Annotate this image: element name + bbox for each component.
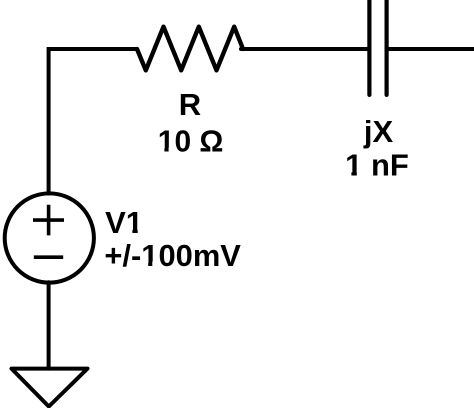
svg-text:jX: jX (363, 114, 394, 149)
capacitor jX right plate (385, 0, 389, 95)
serif mask for "1" of +/-100mV (142, 261, 148, 267)
wire source to ground (47, 282, 51, 368)
svg-text:R: R (179, 87, 201, 122)
minus sign inside V1 (34, 255, 63, 259)
wire capacitor to right edge (387, 47, 474, 51)
serif mask for "1" of 1 nF (345, 171, 351, 177)
wire left vertical + top horizontal (corner) (49, 49, 137, 194)
svg-text:10 Ω: 10 Ω (158, 124, 224, 159)
resistor R zigzag (137, 27, 243, 71)
svg-text:V1: V1 (105, 205, 143, 240)
wire resistor to capacitor (241, 47, 368, 51)
serif mask for "1" of V1 (126, 229, 132, 235)
capacitor jX left plate (367, 0, 371, 95)
voltage source V1 circle (5, 193, 94, 282)
plus sign inside V1 (33, 205, 64, 236)
svg-text:1 nF: 1 nF (345, 148, 409, 183)
ground symbol (12, 369, 88, 407)
svg-text:+/-100mV: +/-100mV (104, 238, 241, 273)
serif mask for "1" of 10 ohm (159, 148, 165, 153)
